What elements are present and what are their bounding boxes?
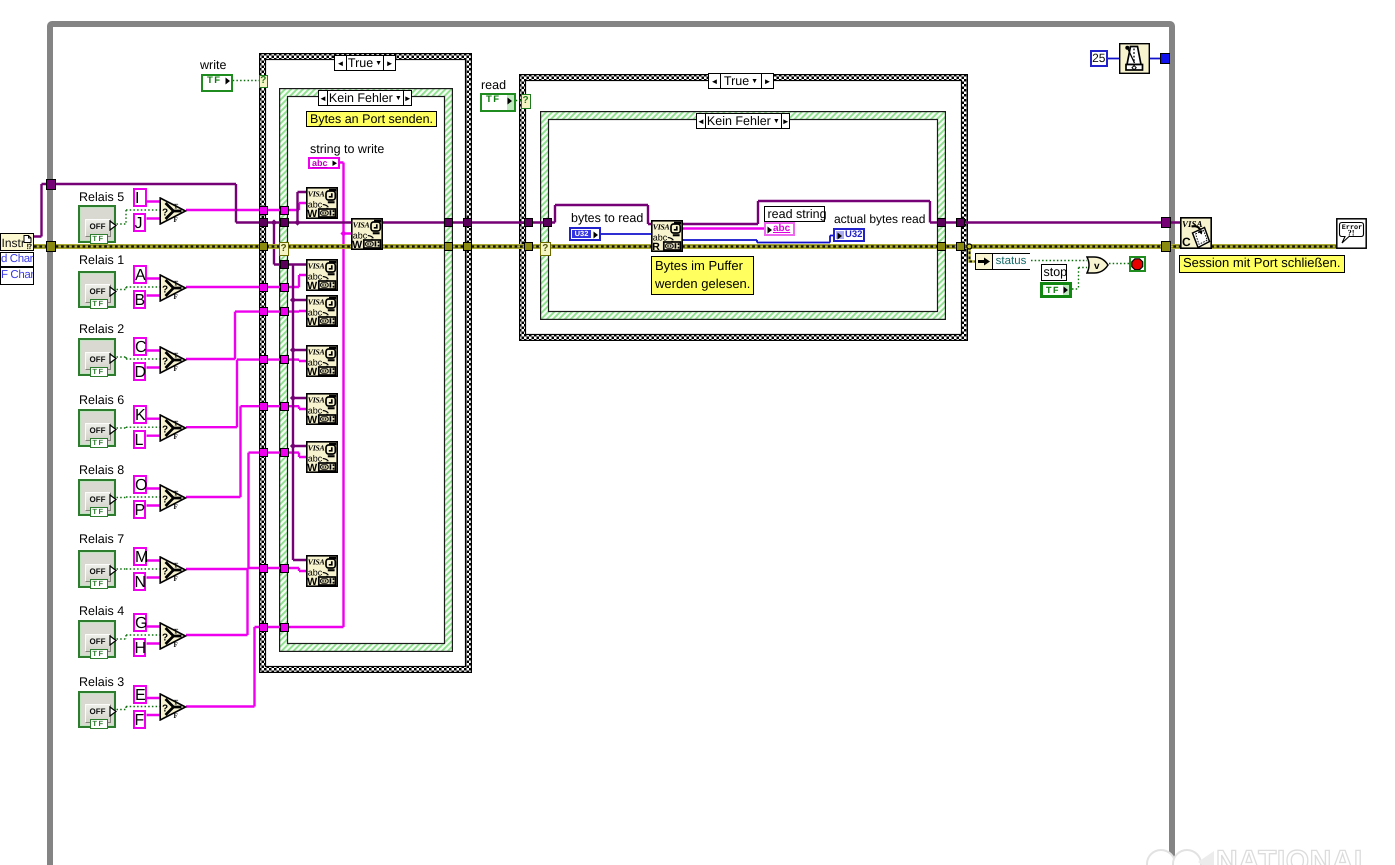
- svg-text:W: W: [307, 366, 317, 377]
- svg-text:C: C: [1182, 235, 1191, 249]
- svg-text:VISA: VISA: [307, 396, 324, 405]
- svg-text:F: F: [174, 364, 178, 372]
- svg-text:R: R: [652, 240, 660, 251]
- svg-text:W: W: [307, 576, 317, 587]
- svg-text:T: T: [174, 279, 179, 287]
- svg-text:VISA: VISA: [307, 348, 324, 357]
- svg-text:T: T: [174, 489, 179, 497]
- svg-text:VISA: VISA: [307, 558, 324, 567]
- svg-text:T: T: [174, 202, 179, 210]
- svg-text:T: T: [174, 561, 179, 569]
- svg-text:VISA: VISA: [653, 222, 670, 231]
- svg-text:VISA: VISA: [307, 262, 324, 271]
- svg-text:W: W: [307, 208, 317, 219]
- svg-text:W: W: [307, 462, 317, 473]
- svg-text:VISA: VISA: [353, 220, 370, 229]
- svg-text:VISA: VISA: [307, 444, 324, 453]
- svg-text:W: W: [307, 280, 317, 291]
- svg-text:F: F: [174, 292, 178, 300]
- svg-text:T: T: [174, 627, 179, 635]
- svg-text:F: F: [174, 574, 178, 582]
- svg-text:T: T: [174, 699, 179, 707]
- svg-text:T: T: [174, 351, 179, 359]
- svg-text:W: W: [307, 414, 317, 425]
- svg-text:W: W: [352, 238, 362, 249]
- svg-text:F: F: [174, 640, 178, 648]
- svg-text:v: v: [1094, 261, 1100, 272]
- svg-text:F: F: [174, 432, 178, 440]
- svg-text:T: T: [174, 419, 179, 427]
- svg-text:W: W: [307, 316, 317, 327]
- svg-text:VISA: VISA: [307, 190, 324, 199]
- svg-text:F: F: [174, 215, 178, 223]
- svg-text:VISA: VISA: [307, 298, 324, 307]
- svg-text:?!: ?!: [1348, 228, 1355, 238]
- svg-text:F: F: [174, 502, 178, 510]
- svg-text:F: F: [174, 712, 178, 720]
